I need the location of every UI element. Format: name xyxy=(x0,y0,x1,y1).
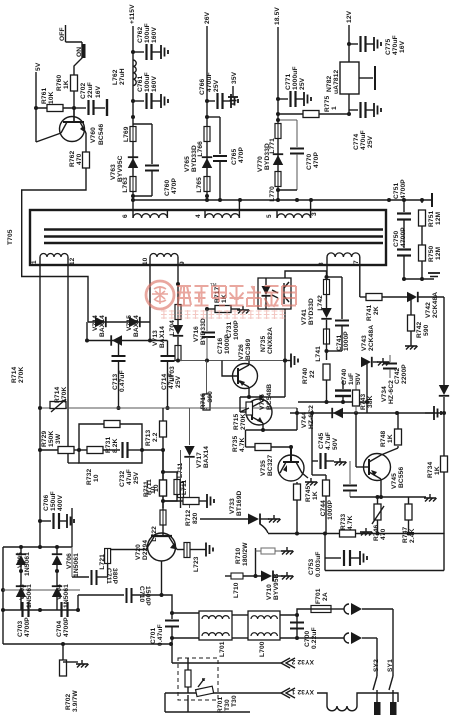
svg-text:C774: C774 xyxy=(353,133,360,150)
svg-text:V717: V717 xyxy=(196,452,203,468)
plug P2 xyxy=(297,632,377,644)
svg-text:V733: V733 xyxy=(229,498,236,514)
svg-text:100uF: 100uF xyxy=(144,23,151,43)
resistor R740 xyxy=(302,364,330,402)
svg-text:+115V: +115V xyxy=(129,4,136,24)
capacitor C745 xyxy=(310,411,347,469)
svg-text:38K: 38K xyxy=(367,395,374,408)
svg-text:1000P: 1000P xyxy=(343,331,350,351)
svg-text:R761: R761 xyxy=(41,87,48,104)
loop wire right xyxy=(325,534,444,571)
svg-text:C744: C744 xyxy=(320,500,327,517)
capacitor C750 xyxy=(393,220,411,279)
svg-text:R734: R734 xyxy=(427,461,434,478)
svg-text:4.7K: 4.7K xyxy=(347,515,354,530)
svg-text:1K: 1K xyxy=(312,491,319,500)
svg-text:4.7K: 4.7K xyxy=(239,437,246,452)
wire bottom loop xyxy=(165,693,250,712)
capacitor C711 xyxy=(72,547,118,585)
svg-text:C716: C716 xyxy=(217,337,224,354)
svg-text:10: 10 xyxy=(150,486,157,494)
svg-text:10K: 10K xyxy=(48,91,55,104)
diode V715 xyxy=(126,315,140,337)
diode V765 xyxy=(184,145,212,172)
wire emitter V725 down xyxy=(246,423,298,432)
wire y613 xyxy=(170,611,199,615)
transistor V760 xyxy=(60,108,106,145)
svg-text:0.003uF: 0.003uF xyxy=(315,551,322,577)
wire xyxy=(248,361,250,365)
svg-text:470uF: 470uF xyxy=(206,72,213,92)
diode V714 xyxy=(92,315,106,337)
svg-text:V703: V703 xyxy=(19,584,26,600)
svg-text:C740: C740 xyxy=(341,368,348,385)
chain x326: inductor L742 xyxy=(317,280,330,311)
svg-text:1: 1 xyxy=(331,106,338,110)
inductor L703 xyxy=(169,337,181,382)
watermark xyxy=(146,281,296,319)
regulator N782 uA7812 xyxy=(326,62,359,114)
svg-text:2200P: 2200P xyxy=(401,364,408,384)
wire bus xyxy=(133,199,432,201)
svg-text:470: 470 xyxy=(76,153,83,165)
resistor R736 xyxy=(294,482,301,534)
diode V763 xyxy=(110,155,138,182)
svg-text:R701: R701 xyxy=(217,696,224,713)
svg-text:L766: L766 xyxy=(197,141,204,157)
svg-text:590: 590 xyxy=(423,324,430,336)
svg-text:12M: 12M xyxy=(435,246,442,260)
svg-text:R760: R760 xyxy=(56,74,63,91)
capacitor C760 xyxy=(133,124,178,196)
resistor R748 xyxy=(380,413,402,455)
svg-text:L765: L765 xyxy=(196,177,203,193)
node 5V junction xyxy=(34,106,38,110)
svg-text:16V: 16V xyxy=(95,85,102,98)
svg-text:R762: R762 xyxy=(69,150,76,167)
svg-text:R775: R775 xyxy=(324,95,331,112)
svg-text:0.47uF: 0.47uF xyxy=(119,370,126,392)
inductor L723 xyxy=(177,543,213,573)
winding pin8/pin7 bottom-right xyxy=(318,253,360,266)
svg-text:150uF: 150uF xyxy=(50,491,57,511)
diode V716 xyxy=(173,318,207,345)
resistor R732 xyxy=(86,447,103,486)
diode V704 xyxy=(52,584,70,608)
svg-text:R740: R740 xyxy=(302,367,309,384)
svg-text:3: 3 xyxy=(311,212,318,216)
capacitor C701 xyxy=(150,595,179,646)
svg-text:C775: C775 xyxy=(385,38,392,55)
resistor R751 xyxy=(419,200,443,227)
svg-text:18.5V: 18.5V xyxy=(274,7,281,25)
capacitor C753 xyxy=(308,550,367,577)
diode V717 xyxy=(184,408,210,508)
svg-text:26V: 26V xyxy=(204,11,211,24)
diode V703 xyxy=(16,584,33,608)
node xyxy=(74,448,87,452)
svg-text:C713: C713 xyxy=(112,373,119,390)
svg-text:R716: R716 xyxy=(200,393,207,410)
wire xyxy=(74,42,82,75)
capacitor C742 xyxy=(383,355,408,384)
svg-text:C703: C703 xyxy=(17,620,24,637)
svg-text:V770: V770 xyxy=(257,156,264,172)
svg-text:2CK48A: 2CK48A xyxy=(368,325,375,351)
svg-text:470P: 470P xyxy=(238,147,245,163)
winding pin4 top xyxy=(195,200,239,218)
svg-text:C710: C710 xyxy=(138,586,145,603)
connector XY32-1 xyxy=(165,688,314,698)
svg-text:1N5061: 1N5061 xyxy=(73,553,80,577)
svg-text:C702: C702 xyxy=(80,82,87,99)
inductor L721 xyxy=(99,549,146,578)
capacitor C713 xyxy=(112,339,127,409)
svg-text:L711: L711 xyxy=(181,480,188,495)
resistor R742 xyxy=(405,295,430,350)
diode V770 xyxy=(257,143,283,172)
svg-text:1000uF: 1000uF xyxy=(292,66,299,90)
svg-text:25V: 25V xyxy=(299,77,306,90)
svg-text:C711: C711 xyxy=(105,568,112,584)
wire V713 row xyxy=(85,322,152,343)
svg-text:4700P: 4700P xyxy=(400,227,407,247)
node 5V xyxy=(35,62,42,142)
optocoupler N735 xyxy=(258,278,291,354)
svg-text:R713: R713 xyxy=(145,429,152,446)
zener V744 xyxy=(301,405,343,429)
svg-text:BC327: BC327 xyxy=(267,455,274,476)
label on left rail xyxy=(11,366,25,383)
svg-text:T30: T30 xyxy=(231,695,238,707)
svg-text:1500P: 1500P xyxy=(144,586,151,606)
svg-text:470P: 470P xyxy=(313,152,320,168)
svg-text:C751: C751 xyxy=(393,182,400,199)
wire x72 up xyxy=(71,508,73,547)
svg-text:470uF: 470uF xyxy=(360,130,367,150)
node base junction xyxy=(72,106,76,110)
winding pin5/pin3 top-right xyxy=(266,200,318,218)
wire x297 vertical xyxy=(295,408,299,430)
inductor L770 xyxy=(269,172,281,202)
svg-text:BYD33D: BYD33D xyxy=(308,298,315,325)
svg-text:C771: C771 xyxy=(285,73,292,90)
wire mid bridge xyxy=(3,565,80,590)
wire pin10 down xyxy=(149,265,151,322)
svg-text:T30: T30 xyxy=(224,699,231,711)
svg-text:1K: 1K xyxy=(63,80,70,89)
resistor R702 xyxy=(60,644,89,712)
svg-text:R712: R712 xyxy=(185,509,192,526)
svg-text:4700P: 4700P xyxy=(63,617,70,637)
inductor L711 xyxy=(163,472,188,501)
svg-text:4700P: 4700P xyxy=(400,179,407,199)
svg-text:L710: L710 xyxy=(233,582,240,598)
resistor R743 xyxy=(353,378,375,413)
svg-text:8.2K: 8.2K xyxy=(112,438,119,453)
capacitor C700 xyxy=(290,613,318,649)
capacitor C704 xyxy=(56,602,70,637)
connector XY32-2 xyxy=(172,644,314,668)
inductor L722 xyxy=(151,501,166,542)
svg-text:C753: C753 xyxy=(308,558,315,575)
node +115V xyxy=(129,4,136,200)
inductor L710 / diode V710 xyxy=(225,573,261,598)
wire y277 xyxy=(285,271,342,279)
diode V713 xyxy=(111,326,166,348)
resistor R761 xyxy=(36,87,74,111)
resistor R711 xyxy=(146,448,167,508)
svg-text:C742: C742 xyxy=(394,367,401,384)
svg-text:BC546: BC546 xyxy=(98,124,105,145)
zener V734 xyxy=(381,297,449,413)
capacitor C703 xyxy=(17,602,31,637)
svg-text:T705: T705 xyxy=(7,229,14,245)
svg-text:1uF: 1uF xyxy=(348,373,355,385)
svg-text:16V: 16V xyxy=(399,40,406,53)
svg-text:9: 9 xyxy=(179,261,186,265)
svg-text:XY32 1: XY32 1 xyxy=(291,688,314,695)
wire y360 xyxy=(176,359,287,363)
svg-text:1N5061: 1N5061 xyxy=(24,552,31,576)
svg-text:uA7812: uA7812 xyxy=(333,69,340,94)
transistor V725 xyxy=(240,384,273,425)
transistor V735 xyxy=(260,447,304,481)
diode V743 xyxy=(361,325,390,404)
resistor R762 xyxy=(69,150,90,168)
svg-text:50V: 50V xyxy=(332,437,339,450)
svg-text:2CK48A: 2CK48A xyxy=(432,292,439,318)
winding pin1/pin12 bottom-left xyxy=(31,254,76,266)
wire y413 xyxy=(290,411,446,415)
svg-text:12M: 12M xyxy=(435,211,442,225)
svg-text:R735: R735 xyxy=(232,435,239,452)
svg-text:150K: 150K xyxy=(48,431,55,447)
svg-text:V742: V742 xyxy=(425,302,432,318)
node 26V xyxy=(204,11,211,200)
svg-text:L721: L721 xyxy=(99,554,106,570)
svg-text:1K: 1K xyxy=(387,434,394,443)
svg-text:V734: V734 xyxy=(381,386,388,402)
wire pin9 down xyxy=(176,265,180,286)
resistor R710 xyxy=(235,542,294,576)
svg-text:1000P: 1000P xyxy=(327,500,334,520)
wires between boxes xyxy=(170,615,297,640)
left rail to bridge xyxy=(3,545,72,549)
svg-text:R741: R741 xyxy=(366,304,373,321)
svg-text:22uF: 22uF xyxy=(87,82,94,98)
svg-text:V713: V713 xyxy=(152,330,159,346)
svg-text:47uF: 47uF xyxy=(126,469,133,485)
svg-text:R702: R702 xyxy=(65,693,72,710)
wire y450 start xyxy=(40,449,58,451)
svg-text:C704: C704 xyxy=(56,620,63,637)
wire emitter xyxy=(85,133,87,152)
capacitor C732 xyxy=(103,442,142,487)
svg-text:1K: 1K xyxy=(434,466,441,475)
svg-text:C761: C761 xyxy=(137,75,144,92)
svg-text:270K: 270K xyxy=(240,414,247,430)
svg-text:V760: V760 xyxy=(90,127,97,143)
wire x78 from y610 down xyxy=(77,595,79,610)
degauss coil xyxy=(231,693,398,711)
wire pin7 down xyxy=(359,265,361,297)
node 18.5V xyxy=(274,7,281,200)
svg-text:100uF: 100uF xyxy=(144,72,151,92)
diode V706 xyxy=(52,547,80,577)
winding pin10/pin9 bottom-middle xyxy=(142,254,186,266)
capacitor C740 xyxy=(335,368,362,402)
wire y402 xyxy=(298,400,367,413)
svg-text:R714: R714 xyxy=(11,366,18,383)
inductor L763 xyxy=(122,177,136,193)
wire collector down xyxy=(160,561,164,597)
diode V710 xyxy=(261,571,294,601)
resistor R747 xyxy=(402,494,437,543)
svg-text:390: 390 xyxy=(207,391,214,403)
svg-text:R742: R742 xyxy=(416,321,423,338)
svg-text:2.4K: 2.4K xyxy=(409,528,416,543)
capacitor C702 xyxy=(74,82,107,116)
capacitor C706 xyxy=(40,491,74,529)
inductor L765 xyxy=(196,177,210,193)
wire y644 xyxy=(3,642,173,646)
svg-text:V720: V720 xyxy=(135,544,142,560)
capacitor C775 xyxy=(349,35,406,55)
bar terminal at bus end xyxy=(431,193,433,207)
wire bottom to ground xyxy=(402,261,440,281)
wire opto down xyxy=(283,309,298,397)
svg-text:1000P: 1000P xyxy=(233,320,240,340)
ground after R733 xyxy=(360,528,373,536)
svg-text:6: 6 xyxy=(122,214,129,218)
svg-text:R745: R745 xyxy=(305,485,312,502)
svg-text:C770: C770 xyxy=(306,153,313,170)
svg-text:R743: R743 xyxy=(360,393,367,410)
svg-text:N782: N782 xyxy=(326,75,333,92)
svg-text:3W: 3W xyxy=(55,433,62,444)
wire pin8 down xyxy=(326,265,328,277)
transistor V720 xyxy=(135,533,177,561)
capacitor C744 xyxy=(320,461,357,520)
resistor R717 xyxy=(205,286,250,313)
svg-text:L762: L762 xyxy=(112,69,119,85)
svg-text:25V: 25V xyxy=(213,79,220,92)
capacitor C770 xyxy=(276,118,320,190)
svg-text:4: 4 xyxy=(195,214,202,218)
svg-text:270K: 270K xyxy=(18,367,25,383)
wire V745 emitter to y497 xyxy=(350,479,409,499)
svg-text:BT169D: BT169D xyxy=(236,490,243,516)
rail x3 xyxy=(1,547,5,644)
svg-text:L701: L701 xyxy=(219,641,226,657)
ground V735 xyxy=(302,473,318,486)
svg-text:7: 7 xyxy=(353,260,360,264)
resistor R711 xyxy=(143,450,167,503)
resistor R729 xyxy=(41,430,74,453)
svg-text:L703: L703 xyxy=(169,366,176,382)
svg-text:10: 10 xyxy=(142,257,149,265)
wire pin10 down xyxy=(149,322,151,341)
svg-text:12V: 12V xyxy=(346,10,353,23)
wire V714 row xyxy=(88,321,150,323)
svg-text:R751: R751 xyxy=(428,210,435,227)
svg-text:470uF: 470uF xyxy=(392,35,399,55)
wire to left rail xyxy=(22,168,88,322)
wire xyxy=(66,41,83,43)
switch SY2 xyxy=(373,638,381,715)
svg-text:C745: C745 xyxy=(318,432,325,449)
svg-text:R710: R710 xyxy=(235,547,242,564)
svg-text:C701: C701 xyxy=(150,627,157,644)
node junction xyxy=(276,112,280,116)
svg-text:470P: 470P xyxy=(171,178,178,194)
transistor V726 xyxy=(222,339,258,389)
resistor R733 xyxy=(340,513,356,537)
svg-text:V714: V714 xyxy=(92,315,99,331)
svg-text:BAX14: BAX14 xyxy=(159,326,166,348)
resistor R735 xyxy=(232,430,293,452)
node junction xyxy=(205,194,209,198)
svg-text:L723: L723 xyxy=(193,556,200,572)
node 35V stub with ground xyxy=(228,71,238,104)
svg-text:2A: 2A xyxy=(322,592,329,601)
capacitor C731 label xyxy=(226,320,240,340)
transformer box xyxy=(30,210,386,265)
svg-text:V765: V765 xyxy=(184,156,191,172)
svg-text:25V: 25V xyxy=(133,471,140,484)
resistor R745 xyxy=(305,461,330,534)
filter L700 box xyxy=(248,611,280,657)
svg-text:2.2: 2.2 xyxy=(152,432,159,442)
node junction xyxy=(276,188,280,192)
capacitor C774 xyxy=(347,102,381,150)
svg-text:BAX14: BAX14 xyxy=(133,315,140,337)
svg-text:BAX14: BAX14 xyxy=(203,446,210,468)
svg-text:2K: 2K xyxy=(373,306,380,315)
svg-text:12: 12 xyxy=(69,257,76,265)
node junction xyxy=(205,115,209,119)
svg-text:4.7uF: 4.7uF xyxy=(325,432,332,450)
capacitor C714 xyxy=(150,341,182,409)
svg-text:L769: L769 xyxy=(123,126,130,142)
capacitor C765 xyxy=(207,117,245,200)
svg-text:8: 8 xyxy=(318,262,325,266)
svg-text:BYD33D: BYD33D xyxy=(200,318,207,345)
wire pin12 down xyxy=(68,265,79,463)
svg-text:L741: L741 xyxy=(315,346,322,362)
svg-text:L700: L700 xyxy=(259,641,266,657)
resistor R775 xyxy=(278,95,349,117)
inductor L766 xyxy=(197,127,210,157)
svg-text:180/2W: 180/2W xyxy=(242,542,249,566)
resistor R746 xyxy=(372,497,387,541)
ground of regulator xyxy=(359,66,375,90)
node 12V xyxy=(346,10,353,62)
svg-text:4700P: 4700P xyxy=(24,617,31,637)
svg-text:C732: C732 xyxy=(119,470,126,487)
svg-text:V726: V726 xyxy=(238,344,245,360)
thyristor V733 xyxy=(200,490,281,533)
capacitor C751 xyxy=(393,179,411,220)
svg-text:R711: R711 xyxy=(143,481,150,497)
svg-text:R748: R748 xyxy=(380,430,387,447)
diode V705 xyxy=(16,547,31,576)
svg-text:1: 1 xyxy=(31,260,38,264)
svg-text:V745: V745 xyxy=(391,473,398,489)
plug P1 xyxy=(344,603,393,615)
svg-text:R733: R733 xyxy=(340,513,347,530)
